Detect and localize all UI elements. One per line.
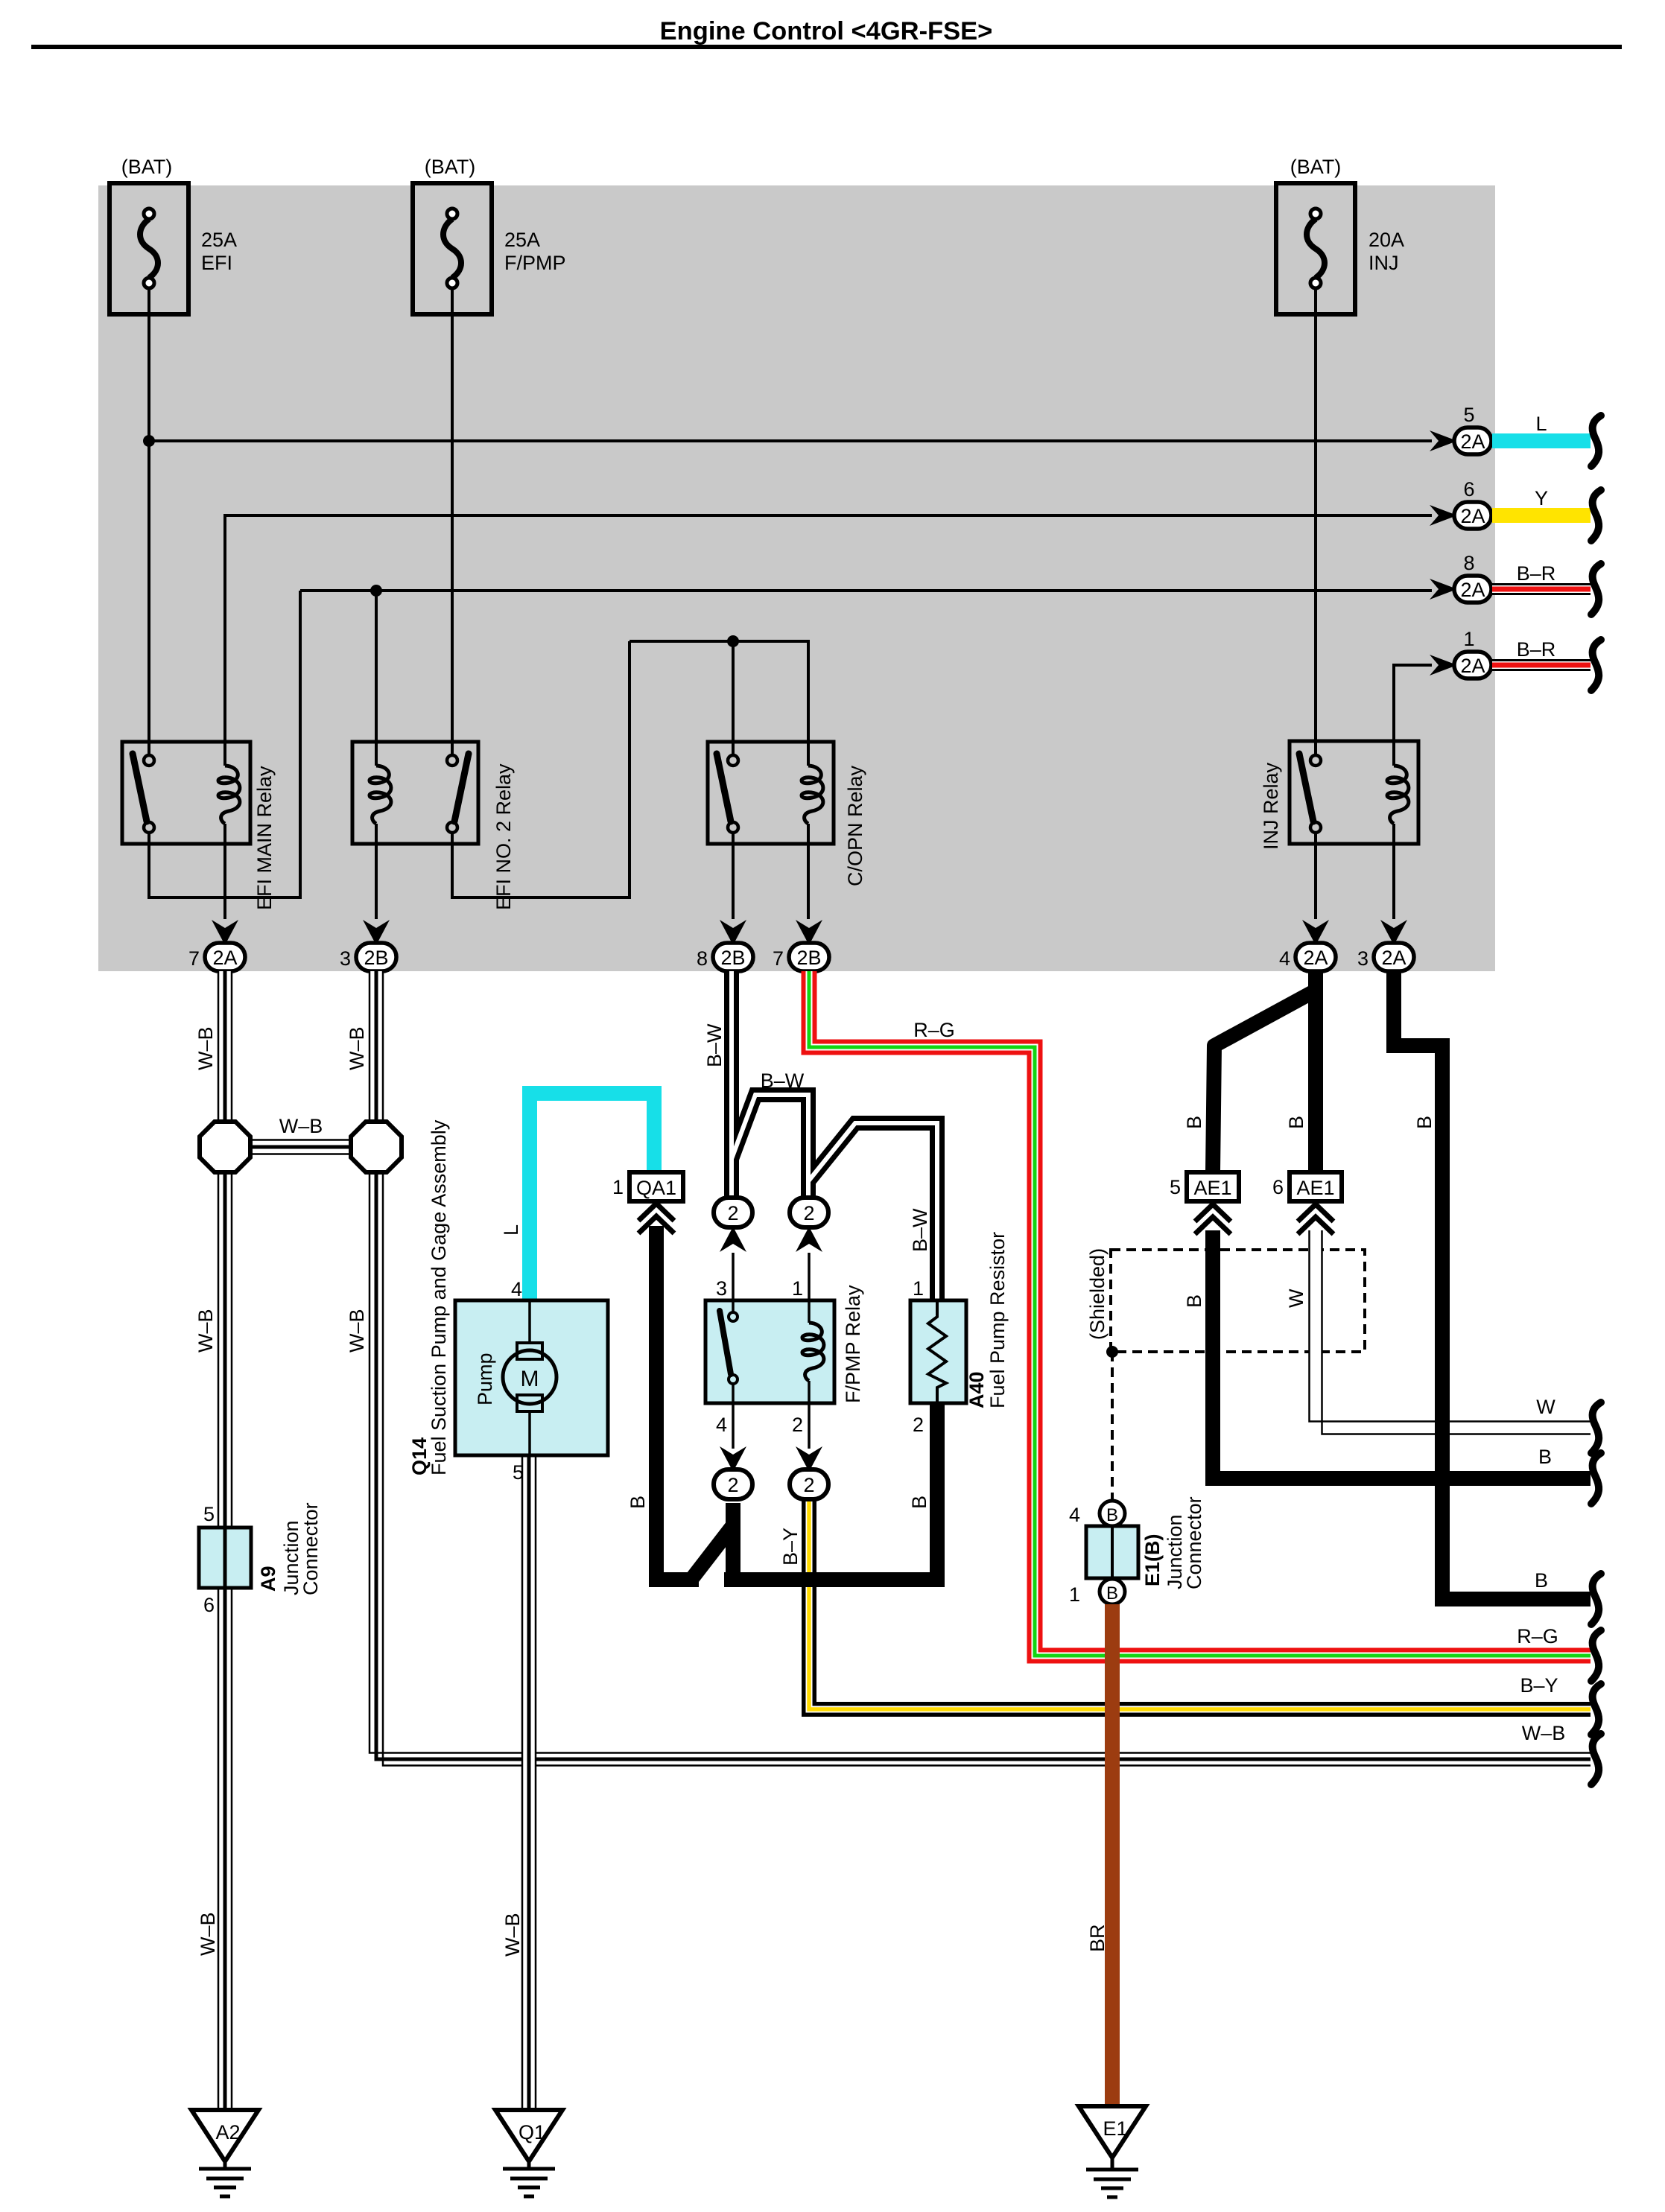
svg-text:(BAT): (BAT): [425, 156, 476, 178]
svg-text:W–B: W–B: [1522, 1722, 1566, 1744]
wire W-B bridge between junction octagons: [250, 1140, 351, 1154]
connector 2B pin 3 (EFI NO.2 coil out): [340, 920, 396, 971]
wire B-W net from 2B pin 8 to F/PMP pins 3,1 and A40 pin 1: [732, 971, 937, 1300]
ground E1: [1079, 2106, 1146, 2197]
connector oval 2 (F/PMP pin 1): [790, 1198, 828, 1252]
svg-text:B: B: [1106, 1505, 1118, 1525]
connector oval 2 (F/PMP pin 4 out): [714, 1446, 752, 1499]
svg-text:5: 5: [513, 1461, 524, 1484]
svg-text:Fuel Pump Resistor: Fuel Pump Resistor: [986, 1232, 1009, 1408]
gray junction block area: [98, 185, 1495, 971]
svg-text:1: 1: [913, 1277, 924, 1300]
svg-text:B: B: [1535, 1569, 1548, 1592]
svg-text:W–B: W–B: [197, 1912, 219, 1956]
relay EFI NO. 2 Relay: [352, 742, 515, 910]
svg-text:2: 2: [727, 1202, 738, 1224]
svg-text:5: 5: [1463, 404, 1474, 426]
wire B (thick) QA1 down to F/PMP pin4 oval and A40 pin 2: [656, 1226, 937, 1586]
svg-text:Engine Control <4GR-FSE>: Engine Control <4GR-FSE>: [660, 17, 993, 45]
svg-text:A40: A40: [965, 1371, 988, 1408]
svg-text:W–B: W–B: [279, 1115, 323, 1137]
svg-text:W: W: [1285, 1288, 1307, 1308]
svg-text:2A: 2A: [1303, 947, 1328, 969]
wire: F/PMP fuse down to EFI NO.2 relay switch: [451, 288, 454, 755]
svg-text:B: B: [908, 1496, 930, 1509]
svg-text:Connector: Connector: [299, 1502, 322, 1595]
connector oval 2 (F/PMP pin 2 out): [790, 1446, 828, 1499]
junction connector E1(B): [1069, 1496, 1205, 1606]
svg-text:A9: A9: [257, 1566, 279, 1592]
wire: C/OPN relay feed bar: [629, 641, 808, 766]
connector 2A pin 8 with B-R wire: [1430, 552, 1491, 603]
wire W from AE1 pin 6 down and right to cowl: [1310, 1230, 1591, 1434]
svg-text:C/OPN Relay: C/OPN Relay: [844, 765, 866, 886]
connector AE1 pin 6: [1272, 1172, 1342, 1234]
svg-text:6: 6: [1272, 1176, 1284, 1198]
svg-text:EFI: EFI: [201, 252, 232, 274]
svg-text:2A: 2A: [1460, 655, 1485, 677]
wire: feed row to 2A pin 6 and EFI MAIN coil: [225, 515, 1432, 766]
svg-text:2B: 2B: [720, 947, 745, 969]
svg-text:3: 3: [340, 947, 351, 970]
svg-text:AE1: AE1: [1296, 1177, 1334, 1199]
svg-text:W–B: W–B: [346, 1309, 368, 1353]
svg-text:4: 4: [1069, 1504, 1080, 1526]
svg-text:B–Y: B–Y: [779, 1528, 802, 1566]
svg-text:1: 1: [1463, 628, 1474, 650]
wire: F/PMP pin 2 down: [808, 1403, 811, 1449]
ground Q1: [495, 2110, 562, 2196]
junction octagon right: [351, 1122, 402, 1172]
title underline: [31, 45, 1622, 49]
wire B thick branch to AE1 pin 5: [1213, 991, 1316, 1172]
svg-text:6: 6: [1463, 478, 1474, 500]
svg-text:B–R: B–R: [1517, 562, 1556, 585]
svg-text:AE1: AE1: [1193, 1177, 1231, 1199]
svg-text:W: W: [1536, 1396, 1555, 1418]
svg-text:B–W: B–W: [761, 1070, 805, 1092]
connector 2B pin 8 (C/OPN switch out): [697, 920, 753, 971]
wire W-B from 2B pin 3 down and right to cowl: [370, 971, 1591, 1766]
wire: C/OPN switch to pin 8 oval: [732, 833, 735, 919]
svg-text:M: M: [521, 1367, 539, 1391]
shield box (Shielded): [1086, 1248, 1365, 1500]
svg-text:B: B: [627, 1496, 649, 1509]
svg-text:2B: 2B: [796, 947, 821, 969]
wire L (blue) from Q14 pin 4 to QA1: [530, 1093, 654, 1300]
svg-text:INJ Relay: INJ Relay: [1260, 762, 1282, 850]
relay C/OPN Relay: [708, 742, 866, 886]
svg-text:EFI NO. 2 Relay: EFI NO. 2 Relay: [492, 763, 515, 910]
wire W-B from 2A pin 7 down to ground A2: [218, 971, 232, 2110]
svg-text:4: 4: [511, 1278, 522, 1300]
wire L (blue) to cowl: [1492, 433, 1591, 448]
svg-text:B–W: B–W: [909, 1208, 931, 1252]
node: junction on C/OPN feed bar: [727, 635, 739, 647]
svg-text:W–B: W–B: [501, 1913, 524, 1957]
wire: EFI fuse down to EFI MAIN relay switch: [148, 288, 150, 755]
wire Y (yellow) to cowl: [1492, 508, 1591, 523]
svg-text:5: 5: [1170, 1176, 1181, 1198]
svg-text:B: B: [1183, 1116, 1205, 1129]
svg-text:2A: 2A: [1381, 947, 1406, 969]
svg-text:Q1: Q1: [518, 2121, 545, 2143]
svg-text:2: 2: [727, 1474, 738, 1496]
wire: oval to F/PMP pin 1: [808, 1253, 811, 1300]
svg-text:(BAT): (BAT): [1290, 156, 1342, 178]
svg-text:B–Y: B–Y: [1520, 1674, 1558, 1697]
wire: INJ switch to pin 4 oval: [1314, 833, 1317, 919]
svg-text:B–R: B–R: [1517, 638, 1556, 661]
svg-text:F/PMP Relay: F/PMP Relay: [842, 1285, 864, 1403]
relay INJ Relay: [1260, 741, 1418, 850]
svg-text:1: 1: [612, 1176, 624, 1198]
svg-text:2A: 2A: [1460, 579, 1485, 601]
svg-text:W–B: W–B: [194, 1026, 217, 1070]
svg-text:W–B: W–B: [194, 1309, 217, 1353]
connector 2A pin 1 with B-R wire: [1430, 628, 1491, 678]
svg-text:(Shielded): (Shielded): [1086, 1248, 1109, 1340]
junction octagon left: [200, 1122, 250, 1172]
wire B-R to cowl: [1492, 659, 1591, 671]
pump assembly Q14: [408, 1119, 608, 1484]
svg-text:BR: BR: [1086, 1924, 1109, 1952]
svg-text:EFI MAIN Relay: EFI MAIN Relay: [253, 766, 276, 910]
connector 2A pin 6 with Y wire: [1430, 478, 1491, 529]
svg-text:R–G: R–G: [1517, 1625, 1558, 1647]
wire: loop under EFI NO.2 relay up to C/OPN feed: [452, 641, 629, 897]
svg-text:B: B: [1106, 1583, 1118, 1604]
wire: C/OPN switch drop: [732, 641, 735, 755]
wire: 2A pin 1 feed from INJ coil: [1394, 665, 1432, 766]
svg-text:1: 1: [792, 1277, 803, 1300]
wire: feed row to 2A pin 8: [300, 589, 1432, 592]
wire: feed row to 2A pin 5: [149, 439, 1432, 442]
svg-text:3: 3: [1357, 947, 1369, 970]
svg-text:2: 2: [803, 1474, 814, 1496]
wire: EFI NO.2 coil feed drop: [375, 591, 378, 766]
svg-text:2: 2: [803, 1202, 814, 1224]
svg-text:W–B: W–B: [346, 1026, 368, 1070]
svg-text:8: 8: [697, 947, 708, 970]
svg-text:3: 3: [716, 1277, 727, 1300]
svg-text:4: 4: [716, 1414, 727, 1436]
svg-text:INJ: INJ: [1369, 252, 1399, 274]
svg-text:2A: 2A: [1460, 430, 1485, 453]
svg-text:Fuel Suction Pump and Gage Ass: Fuel Suction Pump and Gage Assembly: [428, 1119, 450, 1475]
svg-text:E1: E1: [1103, 2117, 1127, 2140]
svg-text:E1(B): E1(B): [1141, 1534, 1164, 1586]
connector AE1 pin 5: [1170, 1172, 1239, 1234]
svg-text:25A: 25A: [504, 229, 540, 251]
node: junction on EFI fuse wire: [143, 435, 155, 447]
svg-text:25A: 25A: [201, 229, 237, 251]
svg-text:B–W: B–W: [703, 1023, 726, 1067]
wire: loop under EFI MAIN relay up to pin-8 row: [149, 591, 300, 897]
relay EFI MAIN Relay: [122, 742, 276, 910]
wire B thick from 2A pin 3 down and right to cowl: [1394, 971, 1591, 1599]
svg-text:R–G: R–G: [913, 1019, 955, 1041]
svg-text:A2: A2: [215, 2121, 240, 2143]
connector oval 2 (F/PMP pin 3): [714, 1198, 752, 1252]
connector QA1: [612, 1172, 683, 1201]
wire: EFI NO.2 coil to pin 3 oval: [375, 824, 378, 919]
wire B-Y from F/PMP pin 2 oval down and right to cowl: [809, 1499, 1591, 1709]
svg-text:B: B: [1538, 1446, 1552, 1468]
svg-text:L: L: [1535, 413, 1547, 435]
svg-text:5: 5: [203, 1503, 215, 1525]
connector 2A pin 3 (INJ coil out): [1357, 920, 1414, 971]
wire: INJ fuse down to INJ relay switch: [1314, 288, 1317, 755]
svg-text:2A: 2A: [212, 947, 237, 969]
connector 2A pin 5 with L wire: [1430, 404, 1491, 454]
svg-text:4: 4: [1279, 947, 1290, 970]
svg-text:B: B: [1183, 1294, 1205, 1308]
svg-text:2: 2: [913, 1414, 924, 1436]
wire B thick from 2A pin 4 down to AE1 pin 6: [1308, 971, 1323, 1172]
wire: C/OPN coil to pin 7 oval: [807, 824, 810, 919]
fuse F1 25A EFI: [110, 156, 237, 314]
junction connector A9: [199, 1502, 322, 1616]
svg-text:6: 6: [203, 1594, 215, 1616]
fuse F3 20A INJ: [1276, 156, 1404, 314]
wire B thick from AE1 pin 5 down and right to cowl: [1213, 1230, 1591, 1478]
svg-text:2B: 2B: [364, 947, 388, 969]
svg-text:8: 8: [1463, 552, 1474, 574]
connector 2B pin 7 (C/OPN coil out): [773, 920, 829, 971]
connector 2A pin 4 (INJ switch out): [1279, 920, 1336, 971]
svg-text:7: 7: [188, 947, 200, 970]
wire W-B from Q14 pin 5 down to ground Q1: [522, 1455, 536, 2110]
svg-text:L: L: [500, 1224, 522, 1236]
svg-text:Y: Y: [1535, 487, 1548, 509]
relay F/PMP Relay: [705, 1277, 864, 1436]
wire BR (brown) from E1(B) to ground E1: [1105, 1604, 1120, 2106]
connector 2A pin 7 (EFI MAIN coil out): [188, 920, 245, 971]
svg-text:7: 7: [773, 947, 784, 970]
svg-text:20A: 20A: [1369, 229, 1404, 251]
svg-text:(BAT): (BAT): [121, 156, 173, 178]
svg-text:Connector: Connector: [1183, 1496, 1205, 1589]
svg-text:Pump: Pump: [474, 1353, 496, 1405]
wire B-R to cowl: [1492, 583, 1591, 595]
wire R-G from 2B pin 7 down and right to cowl: [809, 971, 1591, 1656]
wire: EFI MAIN coil to pin 7 oval: [223, 824, 226, 919]
svg-text:B: B: [1285, 1116, 1307, 1129]
node: junction on pin-8 row: [370, 585, 382, 597]
wire: INJ coil to pin 3 oval: [1392, 824, 1395, 919]
fuse F2 25A F/PMP: [413, 156, 566, 314]
ground A2: [191, 2110, 259, 2196]
svg-text:B: B: [1413, 1116, 1436, 1129]
resistor A40 Fuel Pump Resistor: [910, 1232, 1009, 1436]
wire: F/PMP pin 4 down: [732, 1403, 735, 1449]
svg-text:QA1: QA1: [636, 1177, 676, 1199]
svg-text:1: 1: [1069, 1583, 1080, 1606]
double chevron below QA1: [638, 1204, 674, 1233]
svg-text:2A: 2A: [1460, 505, 1485, 527]
svg-text:F/PMP: F/PMP: [504, 252, 566, 274]
wire: oval to F/PMP pin 3: [732, 1253, 735, 1300]
svg-text:2: 2: [792, 1414, 803, 1436]
